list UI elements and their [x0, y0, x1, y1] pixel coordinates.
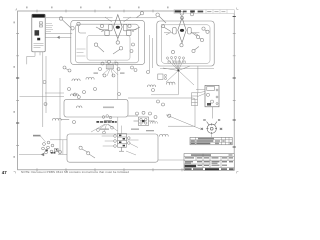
right rect bottom terminal circles [166, 56, 184, 59]
mid coils extra group [147, 85, 155, 87]
oven burner sight circle [206, 123, 217, 134]
right burner B2 venturi diamond [178, 18, 186, 43]
left burner B1 orifice [116, 26, 120, 29]
cooktop enclosure middle [76, 24, 139, 63]
title block logo text [185, 165, 197, 167]
valve area wires [102, 126, 139, 155]
right burner callout balloons [156, 12, 184, 32]
title block cell texts [185, 157, 233, 164]
title block frame [184, 154, 234, 171]
zone ticks left border [16, 34, 19, 146]
fan wire tag right [120, 73, 125, 74]
zone numerals top margin [26, 7, 169, 9]
connector stack callout balloons [99, 60, 121, 77]
plug connector coils row1 [72, 77, 94, 81]
door switch label 6A-7A [33, 135, 41, 137]
door switch balloon [56, 150, 62, 154]
inner-right callout balloons [130, 43, 135, 53]
zone ticks bottom border [37, 168, 182, 171]
revision strip table [174, 10, 234, 14]
paper background [0, 0, 252, 178]
igniter junction cluster circles [97, 115, 114, 134]
zone ticks left border dark [16, 78, 19, 123]
gap callout balloons between enclosures [131, 66, 150, 74]
bottom bake section enclosure [67, 134, 158, 162]
igniter junction cluster fan [91, 124, 118, 132]
oven rect top balloons [44, 93, 121, 106]
corner crop mark bottom-left [14, 172, 16, 174]
corner crop mark top-left [15, 8, 17, 10]
right junction node [177, 70, 179, 72]
control board pin labels [46, 24, 53, 32]
title block mid small text [198, 165, 228, 166]
parts list table [190, 137, 232, 144]
title block header text [191, 154, 211, 155]
cooktop enclosure inner [87, 36, 130, 61]
regulator balloons [152, 89, 165, 107]
spark module box [205, 85, 219, 106]
thermostat side coils [150, 122, 157, 124]
gas valve stem [119, 147, 124, 151]
wire to sight circle diagonal [128, 98, 200, 129]
pressure regulator box [158, 74, 167, 80]
door switch leaders [19, 136, 67, 156]
connector stack fan wires [102, 61, 118, 76]
callout balloon 3 [77, 22, 86, 33]
callout balloon near rev strip [181, 16, 184, 19]
door switch dark contacts [45, 149, 55, 153]
svg-text:47: 47 [2, 170, 7, 175]
control board A1 barcode block [35, 30, 40, 35]
cooktop enclosure outer [71, 20, 145, 64]
zone ticks right border dark [233, 17, 236, 148]
balloon top margin right [190, 13, 193, 16]
right rect lower balloons [171, 44, 199, 54]
zone numerals left margin [13, 22, 15, 158]
sub-manifold wire [160, 68, 214, 70]
door switch assembly cluster [42, 141, 59, 154]
callout balloon 1 [59, 17, 71, 29]
control board A1 outline [32, 14, 45, 52]
terminal block left of spark module [192, 93, 198, 106]
callout balloon 2 [71, 27, 74, 30]
top-center callout balloons [100, 24, 131, 44]
gap riser wires [150, 35, 198, 93]
connector stack below cooktop enclosure [106, 65, 113, 69]
right burner B2 manifold wires [164, 33, 199, 35]
right group interior callouts [191, 27, 209, 42]
wirenut coils right [166, 82, 175, 84]
sheet border frame [18, 11, 235, 170]
thermostat dark knob [142, 120, 145, 122]
top harness wire [46, 17, 157, 19]
bake rect to title block wire [158, 159, 184, 161]
junction arrow on wire [57, 36, 60, 39]
igniter junction cluster label row [96, 121, 116, 123]
left burner B1 venturi diamond [113, 15, 122, 39]
fan wire tag left [94, 73, 99, 74]
control board A1 dark chip [37, 38, 40, 41]
oven light coils [52, 118, 69, 120]
oven section enclosure [64, 99, 128, 117]
spark module down wire [212, 107, 214, 119]
oven section label [103, 107, 114, 109]
wires oven section [20, 65, 118, 134]
bake section callouts [79, 146, 95, 158]
gas valve cluster [114, 134, 130, 148]
top-center igniter cluster left [96, 27, 140, 36]
sight circle X marks [201, 128, 223, 130]
callout balloon top margin [137, 12, 144, 18]
control board A1 lower traces [34, 44, 44, 48]
right group enclosure outer [157, 21, 214, 66]
center rect interior callouts [94, 43, 122, 54]
wire from board lower [45, 36, 71, 38]
title block bottom row dark [185, 168, 234, 170]
callout balloon rear left [168, 114, 171, 117]
sight circle upper tags [203, 119, 220, 125]
left burner B1 side brackets [109, 24, 127, 30]
door switch junction dot [56, 149, 58, 151]
right rect pin squares [168, 61, 185, 63]
door switch drop wire [62, 140, 64, 155]
right burner B2 orifice [180, 29, 184, 32]
right burner B2 side brackets [173, 28, 192, 34]
bake element coils [159, 134, 168, 136]
left-center callout balloons [63, 66, 71, 72]
right junction node fan [163, 59, 194, 95]
left burner B1 igniter leads [105, 17, 131, 22]
lower manifold wire [151, 94, 178, 96]
zone ticks top border [37, 10, 153, 13]
corner crop mark bottom-right [237, 172, 239, 174]
control board A1 relays [39, 22, 42, 27]
right group enclosure inner [162, 25, 211, 64]
thermostat callouts [136, 111, 158, 118]
harness callout balloons left [43, 81, 97, 124]
zone ticks right border [233, 34, 236, 101]
left vertical harness wires [43, 52, 60, 155]
gas valve dark ports [119, 135, 125, 147]
svg-text:NOTE: Document PDBS 0614 SB co: NOTE: Document PDBS 0614 SB contains ins… [21, 170, 129, 174]
spark module lead wires [196, 90, 205, 97]
valve area small labels [100, 120, 154, 131]
corner crop mark top-right [237, 8, 239, 10]
plug connector coils row2 [70, 94, 82, 108]
wire stub below board [27, 52, 40, 65]
inner rect entry stubs [77, 49, 86, 56]
thermostat cluster [128, 116, 155, 126]
left burner B1 manifold wires [99, 30, 137, 32]
wire from board to right [45, 32, 72, 34]
